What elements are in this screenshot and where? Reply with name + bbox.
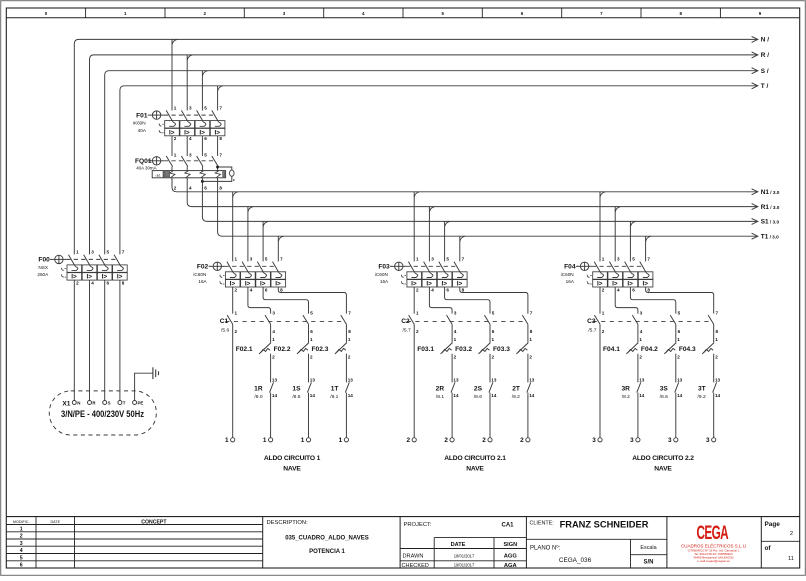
svg-text:F00: F00	[38, 257, 50, 264]
svg-text:13: 13	[348, 377, 354, 382]
svg-text:2: 2	[639, 354, 642, 359]
svg-text:F04.3: F04.3	[679, 346, 696, 353]
svg-text:1: 1	[602, 257, 605, 262]
svg-text:F02.3: F02.3	[312, 346, 329, 353]
svg-text:3: 3	[668, 437, 672, 444]
svg-text:iC60N: iC60N	[193, 272, 206, 277]
svg-text:I>: I>	[260, 281, 266, 288]
svg-text:19/01/2017: 19/01/2017	[454, 563, 475, 568]
svg-text:ALDO CIRCUITO 2.1: ALDO CIRCUITO 2.1	[444, 455, 506, 462]
svg-text:PROJECT:: PROJECT:	[404, 522, 432, 528]
svg-text:F04: F04	[564, 264, 576, 271]
svg-text:POTENCIA 1: POTENCIA 1	[309, 549, 345, 555]
svg-text:3: 3	[454, 311, 457, 316]
svg-text:18/01/2017: 18/01/2017	[454, 553, 475, 558]
svg-text:2: 2	[406, 437, 410, 444]
svg-text:/5.7: /5.7	[588, 327, 596, 333]
svg-text:I>: I>	[411, 281, 417, 288]
svg-text:I>: I>	[426, 281, 432, 288]
svg-text:N: N	[77, 401, 80, 406]
svg-text:F03.2: F03.2	[455, 346, 472, 353]
svg-text:14: 14	[639, 393, 645, 398]
svg-text:I>: I>	[169, 129, 175, 136]
svg-text:NAVE: NAVE	[466, 465, 484, 472]
svg-text:DESCRIPTION:: DESCRIPTION:	[267, 520, 309, 526]
svg-text:I>: I>	[117, 274, 123, 281]
svg-text:1: 1	[602, 311, 605, 316]
svg-text:CEGA: CEGA	[697, 524, 729, 544]
svg-text:8: 8	[122, 281, 125, 286]
svg-text:2: 2	[602, 329, 605, 334]
svg-text:I>: I>	[627, 281, 633, 288]
svg-text:F04.1: F04.1	[603, 346, 620, 353]
svg-text:3: 3	[189, 105, 192, 110]
svg-text:I>: I>	[643, 281, 649, 288]
svg-text:2: 2	[602, 287, 605, 292]
svg-text:7: 7	[280, 257, 283, 262]
svg-text:5: 5	[492, 311, 495, 316]
svg-text:6: 6	[107, 281, 110, 286]
svg-text:S/N: S/N	[643, 560, 653, 566]
svg-text:7: 7	[348, 311, 351, 316]
svg-text:2: 2	[174, 136, 177, 141]
svg-text:I>: I>	[230, 281, 236, 288]
svg-text:I>: I>	[215, 129, 221, 136]
svg-text:7: 7	[530, 311, 533, 316]
svg-text:I>: I>	[86, 274, 92, 281]
svg-text:2: 2	[715, 354, 718, 359]
svg-text:/5.7: /5.7	[403, 327, 411, 333]
svg-text:/8.6: /8.6	[660, 394, 668, 400]
svg-text:7: 7	[122, 250, 125, 255]
svg-text:1: 1	[416, 257, 419, 262]
svg-text:1: 1	[174, 153, 177, 158]
svg-text:1: 1	[348, 337, 351, 342]
svg-text:1: 1	[20, 526, 23, 532]
svg-text:2: 2	[20, 534, 23, 540]
svg-text:3: 3	[91, 250, 94, 255]
svg-text:13: 13	[453, 377, 459, 382]
svg-text:40A 30mA: 40A 30mA	[136, 166, 156, 171]
svg-text:2: 2	[677, 354, 680, 359]
svg-text:6: 6	[492, 329, 495, 334]
svg-text:6: 6	[446, 287, 449, 292]
svg-text:3: 3	[592, 437, 596, 444]
svg-text:CLIENTE:: CLIENTE:	[530, 521, 554, 527]
svg-text:14: 14	[491, 393, 497, 398]
svg-text:8: 8	[348, 329, 351, 334]
svg-text:8: 8	[219, 185, 222, 190]
svg-text:1: 1	[310, 337, 313, 342]
svg-text:1: 1	[639, 337, 642, 342]
svg-text:/8.1: /8.1	[436, 394, 444, 400]
svg-text:DATE: DATE	[451, 542, 466, 548]
svg-text:5: 5	[107, 250, 110, 255]
svg-text:PLANO Nº:: PLANO Nº:	[530, 545, 561, 552]
svg-text:035_CUADRO_ALDO_NAVES: 035_CUADRO_ALDO_NAVES	[285, 536, 369, 542]
svg-text:2: 2	[790, 531, 793, 537]
svg-text:14: 14	[310, 393, 316, 398]
svg-text:3R: 3R	[621, 386, 630, 393]
svg-text:16A: 16A	[198, 279, 207, 284]
svg-text:1: 1	[235, 257, 238, 262]
svg-text:4: 4	[20, 548, 23, 554]
svg-text:T /: T /	[761, 83, 769, 90]
svg-text:6: 6	[204, 136, 207, 141]
svg-text:ALDO CIRCUITO 2.2: ALDO CIRCUITO 2.2	[632, 455, 694, 462]
svg-text:4: 4	[189, 185, 192, 190]
svg-text:of: of	[765, 545, 772, 552]
svg-text:N1 / 3.0: N1 / 3.0	[761, 189, 780, 196]
svg-text:iK60N: iK60N	[133, 121, 146, 126]
svg-text:2: 2	[310, 354, 313, 359]
svg-text:/8.2: /8.2	[622, 394, 630, 400]
svg-text:FRANZ SCHNEIDER: FRANZ SCHNEIDER	[560, 520, 649, 530]
svg-text:5: 5	[632, 257, 635, 262]
svg-text:16A: 16A	[566, 279, 575, 284]
svg-text:6: 6	[204, 185, 207, 190]
svg-text:1: 1	[272, 337, 275, 342]
svg-text:6: 6	[265, 287, 268, 292]
svg-text:13: 13	[715, 377, 721, 382]
svg-text:F04.2: F04.2	[641, 346, 658, 353]
svg-text:2: 2	[76, 281, 79, 286]
svg-text:I>: I>	[102, 274, 108, 281]
svg-text:/8.6: /8.6	[474, 394, 482, 400]
svg-text:NAVE: NAVE	[283, 465, 301, 472]
svg-text:e-mail cegael@cegael.es: e-mail cegael@cegael.es	[697, 559, 730, 563]
svg-text:8: 8	[462, 287, 465, 292]
svg-text:3T: 3T	[698, 386, 706, 393]
svg-text:3: 3	[250, 257, 253, 262]
svg-text:C3: C3	[587, 318, 596, 325]
svg-text:2: 2	[416, 329, 419, 334]
svg-text:2: 2	[272, 354, 275, 359]
svg-text:1: 1	[339, 437, 343, 444]
svg-text:5: 5	[20, 555, 23, 561]
svg-text:I>: I>	[184, 129, 190, 136]
svg-text:4: 4	[640, 329, 643, 334]
svg-text:I>: I>	[612, 281, 618, 288]
svg-text:I>: I>	[245, 281, 251, 288]
svg-text:CEGA_036: CEGA_036	[559, 557, 592, 564]
svg-text:4: 4	[431, 287, 434, 292]
svg-text:5: 5	[265, 257, 268, 262]
svg-text:F03.1: F03.1	[417, 346, 434, 353]
svg-text:CA1: CA1	[501, 523, 514, 529]
svg-text:1R: 1R	[254, 386, 263, 393]
svg-text:DRAWN: DRAWN	[403, 554, 424, 560]
svg-text:/8.0: /8.0	[254, 394, 262, 400]
svg-text:I>: I>	[199, 129, 205, 136]
svg-text:R /: R /	[761, 52, 769, 59]
svg-text:4: 4	[272, 329, 275, 334]
svg-text:iC60N: iC60N	[375, 272, 388, 277]
svg-text:5: 5	[204, 153, 207, 158]
svg-text:8: 8	[530, 329, 533, 334]
svg-text:2: 2	[444, 437, 448, 444]
svg-text:5: 5	[310, 311, 313, 316]
svg-text:4: 4	[250, 287, 253, 292]
svg-text:X1: X1	[62, 400, 70, 407]
svg-text:8: 8	[219, 136, 222, 141]
svg-text:6: 6	[632, 287, 635, 292]
svg-text:14: 14	[453, 393, 459, 398]
svg-text:NAVE: NAVE	[654, 465, 672, 472]
svg-text:NSX: NSX	[38, 265, 49, 270]
svg-text:2: 2	[482, 437, 486, 444]
svg-text:1: 1	[235, 311, 238, 316]
svg-text:C1: C1	[220, 318, 229, 325]
svg-text:1: 1	[454, 337, 457, 342]
svg-text:F02.1: F02.1	[236, 346, 253, 353]
svg-text:13: 13	[529, 377, 535, 382]
svg-text:/9.2: /9.2	[698, 394, 706, 400]
svg-text:3: 3	[706, 437, 710, 444]
svg-text:2R: 2R	[436, 386, 445, 393]
svg-text:F01: F01	[136, 112, 148, 119]
svg-text:7: 7	[716, 311, 719, 316]
svg-text:/9.1: /9.1	[330, 394, 338, 400]
svg-text:1: 1	[416, 311, 419, 316]
svg-text:3: 3	[617, 257, 620, 262]
svg-text:2T: 2T	[512, 386, 520, 393]
svg-text:N /: N /	[761, 37, 769, 44]
svg-text:I>: I>	[457, 281, 463, 288]
svg-text:I>: I>	[597, 281, 603, 288]
svg-text:14: 14	[272, 393, 278, 398]
svg-text:S /: S /	[761, 68, 769, 75]
svg-text:1: 1	[715, 337, 718, 342]
svg-text:1: 1	[301, 437, 305, 444]
svg-text:I>: I>	[442, 281, 448, 288]
svg-text:1: 1	[492, 337, 495, 342]
svg-text:5: 5	[678, 311, 681, 316]
svg-text:4: 4	[454, 329, 457, 334]
svg-text:8: 8	[647, 287, 650, 292]
svg-text:3/N/PE - 400/230V 50Hz: 3/N/PE - 400/230V 50Hz	[61, 409, 145, 419]
svg-text:1S: 1S	[292, 386, 301, 393]
svg-text:14: 14	[677, 393, 683, 398]
svg-text:Page: Page	[765, 521, 781, 528]
svg-text:3: 3	[630, 437, 634, 444]
svg-text:6: 6	[310, 329, 313, 334]
svg-text:2: 2	[235, 287, 238, 292]
svg-text:AGA: AGA	[504, 563, 518, 569]
svg-text:4: 4	[91, 281, 94, 286]
svg-text:iC60N: iC60N	[561, 272, 574, 277]
svg-text:2S: 2S	[474, 386, 483, 393]
svg-text:14: 14	[715, 393, 721, 398]
svg-text:7: 7	[647, 257, 650, 262]
svg-text:5: 5	[204, 105, 207, 110]
svg-text:Escala: Escala	[640, 545, 656, 551]
svg-text:250A: 250A	[37, 272, 49, 277]
svg-text:2: 2	[520, 437, 524, 444]
svg-text:2: 2	[348, 354, 351, 359]
svg-text:T: T	[123, 401, 126, 406]
svg-text:2: 2	[235, 329, 238, 334]
svg-text:7: 7	[219, 153, 222, 158]
svg-text:13: 13	[272, 377, 278, 382]
svg-text:F03.3: F03.3	[493, 346, 510, 353]
svg-text:1: 1	[174, 105, 177, 110]
svg-text:7: 7	[462, 257, 465, 262]
svg-text:13: 13	[491, 377, 497, 382]
svg-text:3: 3	[272, 311, 275, 316]
svg-text:FQ01: FQ01	[135, 158, 152, 165]
svg-text:/9.2: /9.2	[512, 394, 520, 400]
svg-text:S: S	[108, 401, 111, 406]
svg-text:ALDO CIRCUITO 1: ALDO CIRCUITO 1	[264, 455, 321, 462]
svg-text:8: 8	[716, 329, 719, 334]
svg-text:2: 2	[174, 185, 177, 190]
svg-text:2: 2	[454, 354, 457, 359]
svg-text:2: 2	[416, 287, 419, 292]
svg-text:5: 5	[446, 257, 449, 262]
svg-text:13: 13	[639, 377, 645, 382]
svg-text:F03: F03	[378, 264, 390, 271]
svg-text:6: 6	[20, 563, 23, 569]
svg-text:1T: 1T	[331, 386, 339, 393]
svg-text:/8.5: /8.5	[292, 394, 300, 400]
svg-text:S1 / 3.0: S1 / 3.0	[761, 219, 780, 226]
svg-text:3S: 3S	[660, 386, 669, 393]
svg-text:1: 1	[677, 337, 680, 342]
svg-text:3: 3	[640, 311, 643, 316]
svg-text:11: 11	[788, 556, 794, 562]
svg-text:CHECKED: CHECKED	[402, 563, 429, 569]
svg-text:CONCEPT: CONCEPT	[141, 519, 167, 525]
svg-text:3: 3	[20, 541, 23, 547]
svg-text:1: 1	[529, 337, 532, 342]
svg-text:13: 13	[677, 377, 683, 382]
svg-text:2: 2	[529, 354, 532, 359]
svg-text:16A: 16A	[380, 279, 389, 284]
svg-text:AGG: AGG	[504, 554, 518, 560]
svg-text:SIGN: SIGN	[503, 542, 517, 548]
svg-text:40A: 40A	[138, 128, 147, 133]
svg-text:◁IΔ: ◁IΔ	[155, 173, 161, 177]
svg-text:R1 / 3.0: R1 / 3.0	[761, 204, 780, 211]
svg-text:T1 / 3.0: T1 / 3.0	[761, 234, 779, 241]
svg-text:F02.2: F02.2	[274, 346, 291, 353]
svg-text:1: 1	[225, 437, 229, 444]
svg-text:F02: F02	[197, 264, 209, 271]
svg-text:I>: I>	[71, 274, 77, 281]
svg-text:14: 14	[348, 393, 354, 398]
svg-text:3: 3	[431, 257, 434, 262]
svg-text:4: 4	[189, 136, 192, 141]
svg-text:14: 14	[529, 393, 535, 398]
svg-text:4: 4	[617, 287, 620, 292]
svg-text:MODIFIC.: MODIFIC.	[13, 520, 30, 524]
svg-text:8: 8	[280, 287, 283, 292]
svg-text:7: 7	[219, 105, 222, 110]
svg-text:DATE: DATE	[51, 520, 61, 524]
svg-text:6: 6	[678, 329, 681, 334]
svg-text:C2: C2	[401, 318, 410, 325]
svg-text:PE: PE	[138, 401, 144, 406]
svg-text:/5.6: /5.6	[221, 327, 229, 333]
svg-text:13: 13	[310, 377, 316, 382]
svg-text:1: 1	[263, 437, 267, 444]
svg-text:2: 2	[492, 354, 495, 359]
svg-text:I>: I>	[275, 281, 281, 288]
svg-text:1: 1	[76, 250, 79, 255]
svg-text:3: 3	[189, 153, 192, 158]
